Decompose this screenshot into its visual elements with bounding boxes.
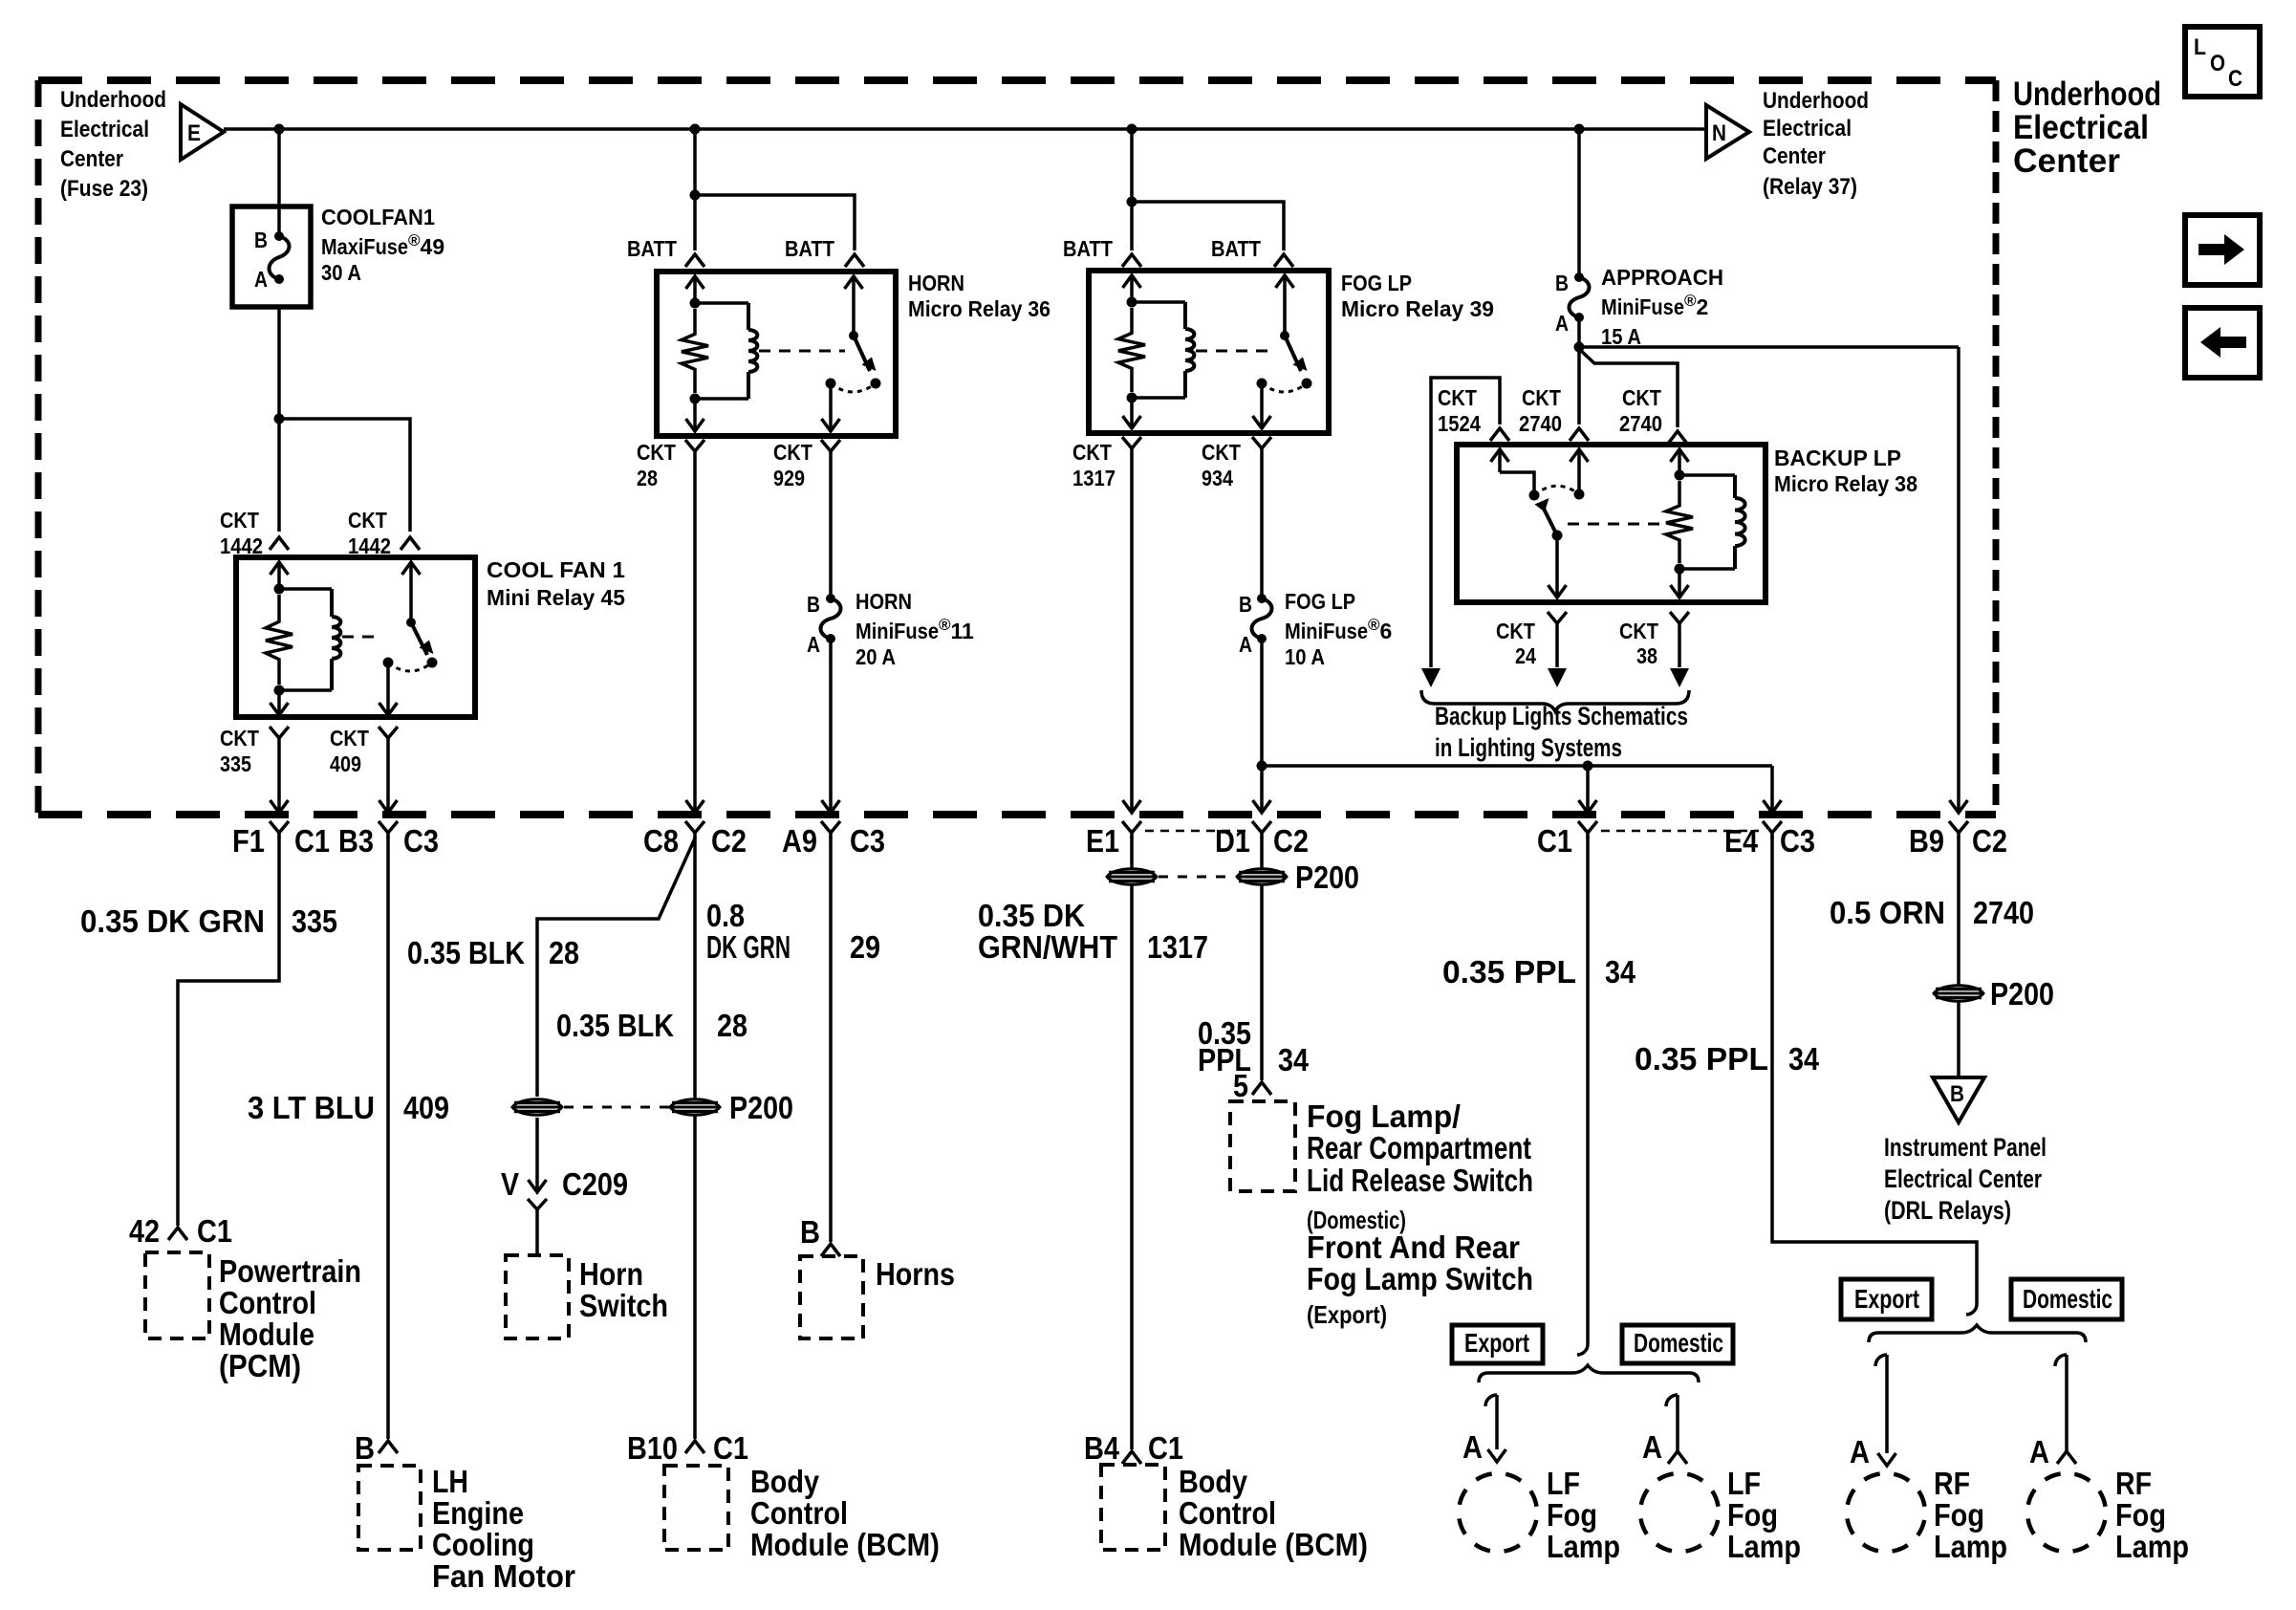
wire HORN coil output to box edge	[693, 399, 697, 431]
brace RF fog lamp split	[1869, 1325, 2086, 1342]
svg-text:30 A: 30 A	[321, 260, 361, 285]
svg-text:A: A	[254, 267, 268, 292]
svg-text:A: A	[1239, 632, 1252, 657]
svg-text:C8: C8	[643, 823, 679, 859]
svg-text:RF: RF	[1934, 1466, 1970, 1501]
svg-text:Lamp: Lamp	[1934, 1529, 2007, 1564]
svg-text:Mini Relay 45: Mini Relay 45	[487, 585, 625, 610]
wire dashed grommet tie P200	[564, 1106, 669, 1109]
svg-text:2740: 2740	[1973, 895, 2034, 930]
wire HORN fuse to border (CKT 29)	[829, 639, 833, 813]
connector BATT FOG switch	[1274, 254, 1293, 267]
wire CKT 335 to border	[277, 744, 281, 813]
svg-text:0.35 DK GRN: 0.35 DK GRN	[80, 903, 265, 939]
node bus junction at FOG LP branch	[1127, 124, 1137, 135]
svg-text:B: B	[807, 592, 820, 617]
svg-text:DK GRN: DK GRN	[706, 929, 791, 965]
wire main battery bus from E to N	[224, 127, 1706, 131]
connector FOG output CKT 934	[1252, 437, 1271, 448]
component Horns box	[800, 1256, 863, 1338]
wire dashed actuator link COOL FAN relay	[342, 636, 380, 639]
node HORN branch junction	[690, 190, 701, 201]
svg-text:D1: D1	[1215, 823, 1250, 859]
svg-text:Switch: Switch	[579, 1288, 668, 1323]
svg-text:O: O	[2210, 51, 2225, 76]
wire dashed actuator link HORN relay	[759, 350, 845, 353]
svg-text:Backup Lights Schematics: Backup Lights Schematics	[1435, 702, 1688, 730]
node HORN coil top junction	[690, 298, 701, 309]
connector triangle N (to Relay 37)	[1706, 105, 1749, 159]
switch FOG relay	[1276, 275, 1294, 288]
fuse HORN MiniFuse 11 20A	[826, 594, 835, 603]
wire APPROACH fuse to junction	[1577, 317, 1581, 347]
wire BACKUP coil output (CKT 38)	[1678, 569, 1681, 598]
svg-text:RF: RF	[2115, 1466, 2152, 1501]
wire CKT 1524 arrow to backup lights schematic	[1421, 668, 1440, 687]
wire 0.5 ORN 2740 to instrument panel	[1957, 837, 1960, 1077]
wire bus to HORN relay	[693, 129, 697, 195]
svg-text:L: L	[2194, 34, 2206, 60]
connector BATT HORN switch	[845, 254, 864, 267]
wire fog feed to E4 column	[1262, 764, 1772, 768]
relay COOL FAN 1 Mini Relay 45 box	[236, 557, 475, 717]
svg-text:38: 38	[1636, 643, 1657, 668]
connector COOL FAN output CKT 409	[379, 727, 398, 738]
legend right-arrow box	[2185, 215, 2260, 285]
svg-text:MaxiFuse®49: MaxiFuse®49	[321, 231, 444, 259]
svg-text:29: 29	[850, 929, 880, 965]
connector BATT HORN coil	[685, 254, 704, 267]
wire 0.8 DK GRN 29 to horns	[829, 837, 833, 1242]
wire jog to BACKUP relay right terminal (CKT 2740)	[1579, 349, 1678, 427]
svg-text:P200: P200	[1295, 859, 1359, 895]
switch feed terminal BACKUP relay	[1491, 449, 1509, 462]
svg-text:CKT: CKT	[1622, 385, 1661, 410]
svg-text:(Export): (Export)	[1307, 1300, 1387, 1329]
label Export box (RF)	[1841, 1279, 1932, 1319]
wire branch 0.35 BLK 28 to horn switch	[537, 838, 695, 1097]
svg-text:Horn: Horn	[579, 1256, 643, 1292]
component Horn Switch box	[506, 1255, 569, 1338]
svg-text:HORN: HORN	[908, 271, 964, 295]
svg-text:C3: C3	[1780, 823, 1815, 859]
lamp RF Fog Lamp (export)	[1847, 1473, 1925, 1552]
svg-text:34: 34	[1605, 954, 1636, 990]
svg-text:Front And Rear: Front And Rear	[1307, 1229, 1520, 1265]
svg-text:Fog: Fog	[2115, 1497, 2166, 1533]
wire junction to B9 column	[1579, 345, 1959, 349]
connector B3-C3 at border	[379, 821, 398, 833]
svg-text:Lamp: Lamp	[1727, 1529, 1801, 1564]
label Export box (LF)	[1452, 1325, 1543, 1363]
relay BACKUP LP Micro Relay 38 box	[1457, 445, 1765, 602]
svg-text:409: 409	[403, 1090, 449, 1125]
svg-text:Fog: Fog	[1727, 1497, 1778, 1533]
svg-text:0.35 DK: 0.35 DK	[978, 898, 1085, 933]
connector HORN output CKT 28	[685, 440, 704, 451]
svg-text:335: 335	[220, 751, 251, 776]
svg-text:C1: C1	[1148, 1430, 1183, 1466]
svg-text:335: 335	[292, 903, 337, 939]
svg-text:B: B	[1555, 271, 1569, 295]
svg-text:Body: Body	[1179, 1464, 1248, 1499]
connector BCM pin B10	[685, 1441, 704, 1453]
wire FOG coil output to box edge	[1130, 398, 1134, 428]
svg-text:Micro Relay 39: Micro Relay 39	[1341, 296, 1494, 321]
svg-text:A: A	[1642, 1429, 1662, 1465]
svg-text:Micro Relay 38: Micro Relay 38	[1774, 471, 1917, 496]
svg-text:A: A	[1850, 1434, 1870, 1469]
wire FOG fuse to border (CKT 34)	[1260, 639, 1264, 813]
legend left-arrow box	[2185, 308, 2260, 378]
svg-text:CKT: CKT	[1522, 385, 1561, 410]
coil HORN relay winding	[695, 301, 748, 305]
svg-text:BATT: BATT	[627, 236, 677, 261]
relay FOG LP Micro Relay 39 box	[1089, 271, 1329, 433]
svg-text:CKT: CKT	[1072, 440, 1112, 465]
svg-text:Center: Center	[2013, 142, 2120, 180]
brace LF fog lamp split	[1479, 1365, 1699, 1382]
wire bus to COOLFAN1 fuse	[277, 129, 281, 236]
node junction below COOLFAN1	[274, 414, 285, 424]
node junction below APPROACH fuse	[1574, 342, 1585, 353]
fuse COOLFAN1 MaxiFuse 49 30A	[232, 207, 311, 307]
connector E4-C3 at border	[1763, 821, 1782, 833]
coil terminal arrow COOL FAN relay	[271, 562, 289, 575]
svg-text:Engine: Engine	[432, 1495, 524, 1531]
coil FOG relay winding	[1132, 300, 1185, 304]
wire dashed grommet tie P200 upper	[1159, 876, 1235, 879]
wire CKT 409 to border	[386, 744, 390, 813]
svg-text:B4: B4	[1084, 1430, 1120, 1466]
svg-text:HORN: HORN	[856, 589, 912, 614]
svg-text:42: 42	[129, 1213, 160, 1249]
svg-text:Domestic: Domestic	[2023, 1284, 2112, 1314]
svg-text:20 A: 20 A	[856, 644, 896, 669]
svg-text:Rear Compartment: Rear Compartment	[1307, 1130, 1531, 1165]
svg-text:BATT: BATT	[1063, 236, 1113, 261]
svg-text:P200: P200	[729, 1090, 793, 1125]
svg-text:Underhood: Underhood	[1763, 88, 1869, 114]
svg-text:C1: C1	[197, 1213, 232, 1249]
svg-text:N: N	[1712, 120, 1726, 146]
node bus junction at HORN branch	[690, 124, 701, 135]
svg-text:Module: Module	[219, 1316, 314, 1352]
svg-text:B: B	[1239, 592, 1252, 617]
connector triangle B to instrument panel	[1933, 1077, 1984, 1122]
svg-text:Center: Center	[60, 146, 123, 172]
wire CKT 38 to backup lights schematic	[1678, 629, 1681, 667]
svg-text:34: 34	[1278, 1042, 1310, 1077]
svg-text:28: 28	[717, 1008, 747, 1043]
svg-text:C1: C1	[1537, 823, 1572, 859]
wire BACKUP switch output (CKT 24)	[1555, 535, 1559, 598]
svg-text:Underhood: Underhood	[60, 87, 166, 113]
svg-text:CKT: CKT	[1202, 440, 1241, 465]
svg-text:FOG LP: FOG LP	[1341, 271, 1412, 295]
connector BACKUP relay right terminal	[1668, 431, 1687, 444]
svg-text:Module (BCM): Module (BCM)	[1179, 1527, 1368, 1562]
svg-text:Fog: Fog	[1547, 1497, 1597, 1533]
wire COOLFAN1 to COOL FAN relay coil (CKT 1442)	[277, 307, 281, 419]
svg-text:1317: 1317	[1072, 466, 1116, 490]
wire CKT 24 to backup lights schematic	[1555, 629, 1559, 667]
coil terminal arrow BACKUP relay	[1671, 449, 1689, 462]
wire dashed connector tie E1-D1	[1145, 830, 1250, 833]
svg-text:Fog Lamp/: Fog Lamp/	[1307, 1099, 1461, 1134]
legend LOC box	[2185, 27, 2260, 97]
svg-text:929: 929	[773, 466, 805, 490]
connector V C209 inline	[535, 1118, 539, 1192]
node FOG branch junction	[1127, 197, 1137, 207]
connector HORN output CKT 929	[821, 440, 840, 451]
svg-text:Body: Body	[750, 1464, 820, 1499]
connector fog lamp switch pin 5	[1252, 1082, 1271, 1095]
svg-text:GRN/WHT: GRN/WHT	[978, 929, 1117, 965]
wire CKT 934 to FOG fuse	[1260, 454, 1264, 598]
svg-text:28: 28	[549, 935, 579, 970]
svg-text:Module (BCM): Module (BCM)	[750, 1527, 940, 1562]
svg-text:C1: C1	[294, 823, 330, 859]
wire 0.35 PPL 34 to LF fog lamps	[1586, 837, 1590, 1344]
connector triangle E (feed from Fuse 23)	[181, 104, 224, 160]
svg-text:A: A	[2029, 1434, 2049, 1469]
wire branch to FOG LP relay switch BATT	[1132, 202, 1284, 250]
component Body Control Module (BCM) box left	[664, 1466, 728, 1550]
wire 0.35 BLK 28 to BCM (B10)	[693, 837, 697, 1439]
svg-text:CKT: CKT	[1438, 385, 1477, 410]
resistor FOG relay coil suppression	[1118, 308, 1145, 392]
lamp LF Fog Lamp (domestic)	[1640, 1473, 1719, 1552]
coil terminal arrow HORN relay	[686, 276, 704, 289]
wire branch to HORN relay switch BATT	[695, 195, 855, 250]
svg-text:15 A: 15 A	[1601, 324, 1641, 349]
connector E1 at border	[1122, 821, 1141, 833]
Underhood Electrical Center dashed boundary box	[38, 76, 1996, 84]
svg-text:Control: Control	[1179, 1495, 1276, 1531]
svg-text:Electrical: Electrical	[60, 117, 149, 142]
connector horns pin B	[821, 1244, 840, 1256]
connector CKT 1442 left	[270, 537, 289, 550]
svg-text:COOLFAN1: COOLFAN1	[321, 205, 435, 229]
svg-text:Export: Export	[1464, 1328, 1529, 1358]
wire E4 column to border	[1770, 766, 1774, 813]
connector A9-C3 at border	[821, 821, 840, 833]
svg-text:Domestic: Domestic	[1634, 1328, 1723, 1358]
node BACKUP coil bottom junction	[1675, 564, 1685, 575]
svg-text:Horns: Horns	[876, 1256, 955, 1292]
svg-text:34: 34	[1788, 1041, 1820, 1077]
node junction fog lamp feed split	[1257, 761, 1267, 772]
svg-text:Electrical Center: Electrical Center	[1884, 1164, 2042, 1193]
connector PCM pin 42	[168, 1228, 187, 1240]
coil BACKUP relay winding	[1679, 473, 1735, 477]
wire bus to FOG LP relay	[1130, 129, 1134, 202]
svg-text:LF: LF	[1727, 1466, 1761, 1501]
coil terminal arrow FOG relay	[1123, 275, 1141, 288]
svg-text:C2: C2	[1273, 823, 1309, 859]
wire end hook LF feed	[1577, 1344, 1588, 1355]
svg-text:LF: LF	[1547, 1466, 1580, 1501]
svg-text:APPROACH: APPROACH	[1601, 265, 1723, 290]
svg-text:MiniFuse®11: MiniFuse®11	[856, 616, 974, 643]
svg-text:C209: C209	[562, 1166, 628, 1202]
lamp RF Fog Lamp (domestic)	[2027, 1473, 2106, 1552]
node bus junction at APPROACH branch	[1574, 124, 1585, 135]
wire CKT 28 to border	[693, 457, 697, 813]
node HORN coil bottom junction	[690, 394, 701, 404]
wire C1 column to border	[1586, 766, 1590, 813]
connector BACKUP relay center terminal	[1570, 428, 1589, 441]
svg-text:0.35 PPL: 0.35 PPL	[1635, 1041, 1768, 1077]
svg-text:A: A	[1462, 1429, 1483, 1465]
svg-text:E4: E4	[1724, 823, 1759, 859]
svg-text:(PCM): (PCM)	[219, 1348, 301, 1383]
svg-text:5: 5	[1233, 1068, 1248, 1103]
svg-text:C1: C1	[713, 1430, 748, 1466]
svg-text:FOG LP: FOG LP	[1285, 589, 1355, 614]
splice grommet P200 D1 wire	[1237, 869, 1287, 885]
connector C8-C2 at border	[685, 821, 704, 833]
svg-text:E: E	[187, 120, 201, 146]
svg-text:CKT: CKT	[348, 508, 387, 533]
svg-text:Fog Lamp Switch: Fog Lamp Switch	[1307, 1261, 1533, 1296]
svg-text:F1: F1	[232, 823, 265, 859]
svg-text:BATT: BATT	[785, 236, 834, 261]
wire CKT 1524 bracket	[1431, 378, 1500, 667]
svg-text:28: 28	[637, 466, 658, 490]
connector CKT 1442 right	[401, 537, 420, 550]
connector BATT FOG coil	[1122, 254, 1141, 267]
connector D1-C2 at border	[1252, 821, 1271, 833]
connector F1-C1 at border	[270, 821, 289, 833]
wire bus to APPROACH fuse	[1577, 129, 1581, 277]
svg-text:V: V	[501, 1166, 519, 1202]
resistor HORN relay coil suppression	[682, 309, 708, 393]
connector fan motor pin B	[379, 1441, 398, 1453]
svg-text:A9: A9	[782, 823, 817, 859]
node coil bottom junction	[274, 685, 285, 696]
svg-text:B3: B3	[338, 823, 374, 859]
wire CKT 1317 to border	[1130, 454, 1134, 813]
svg-text:Powertrain: Powertrain	[219, 1253, 361, 1289]
svg-text:1317: 1317	[1147, 929, 1208, 965]
svg-text:Fog: Fog	[1934, 1497, 1984, 1533]
relay HORN Micro Relay 36 box	[657, 272, 896, 436]
wire RF export branch	[1875, 1355, 1887, 1366]
wire branch to COOL FAN relay switch (CKT 1442)	[279, 419, 410, 532]
svg-text:B: B	[355, 1430, 375, 1466]
svg-text:C2: C2	[711, 823, 747, 859]
brace backup lights schematics group	[1421, 690, 1689, 711]
connector BACKUP relay left terminal	[1490, 428, 1509, 441]
node junction at C1 column	[1583, 761, 1593, 772]
svg-text:Center: Center	[1763, 143, 1826, 169]
svg-text:BATT: BATT	[1211, 236, 1261, 261]
svg-text:CKT: CKT	[1619, 619, 1658, 643]
wire LF domestic branch	[1666, 1395, 1678, 1406]
node FOG coil bottom junction	[1127, 393, 1137, 403]
svg-text:Electrical: Electrical	[1763, 116, 1852, 141]
svg-text:CKT: CKT	[220, 508, 259, 533]
wire RF domestic branch	[2055, 1355, 2067, 1366]
wire B9 column down to border	[1957, 347, 1960, 813]
svg-text:C: C	[2228, 66, 2242, 92]
svg-text:0.8: 0.8	[706, 898, 745, 933]
wire 0.35 PPL 34 to RF fog lamps	[1772, 837, 1977, 1304]
svg-text:2740: 2740	[1519, 411, 1562, 436]
svg-text:Underhood: Underhood	[2013, 76, 2161, 113]
svg-text:0.35 BLK: 0.35 BLK	[556, 1008, 674, 1043]
svg-text:Electrical: Electrical	[2013, 109, 2149, 146]
wire end hook RF feed	[1966, 1304, 1977, 1315]
connector C1 at border (fog lamps)	[1578, 821, 1597, 833]
node coil top junction	[274, 584, 285, 595]
svg-text:Micro Relay 36: Micro Relay 36	[908, 296, 1051, 321]
svg-text:C3: C3	[403, 823, 439, 859]
svg-text:A: A	[1555, 311, 1569, 336]
component Fog Lamp / Rear Compartment Lid Release Switch box	[1230, 1101, 1295, 1191]
splice grommet P200 E1 wire	[1107, 869, 1157, 885]
switch COOL FAN relay	[402, 562, 421, 575]
wire dashed actuator link FOG relay	[1196, 350, 1276, 353]
svg-text:Instrument Panel: Instrument Panel	[1884, 1133, 2047, 1162]
svg-text:(Fuse 23): (Fuse 23)	[60, 176, 148, 202]
svg-text:Lamp: Lamp	[1547, 1529, 1620, 1564]
svg-text:B: B	[800, 1214, 820, 1250]
fuse APPROACH MiniFuse 2 15A	[1574, 272, 1584, 282]
switch common terminal BACKUP relay	[1570, 449, 1589, 462]
wire dashed connector tie C1-E4	[1601, 830, 1759, 833]
svg-text:Fan Motor: Fan Motor	[432, 1558, 575, 1594]
svg-text:Lamp: Lamp	[2115, 1529, 2189, 1564]
svg-text:0.5 ORN: 0.5 ORN	[1830, 895, 1945, 930]
svg-text:P200: P200	[1990, 976, 2054, 1012]
svg-text:24: 24	[1515, 643, 1536, 668]
svg-text:Export: Export	[1854, 1284, 1919, 1314]
svg-text:B9: B9	[1909, 823, 1944, 859]
svg-text:Lid Release Switch: Lid Release Switch	[1307, 1163, 1533, 1198]
svg-text:CKT: CKT	[330, 726, 369, 751]
svg-text:0.35 PPL: 0.35 PPL	[1442, 954, 1576, 990]
splice grommet P200 ORN wire	[1934, 986, 1983, 1002]
splice grommet P200 BCM wire	[670, 1099, 720, 1116]
svg-text:CKT: CKT	[637, 440, 676, 465]
wire 0.35 PPL 34 to fog lamp switch	[1260, 837, 1264, 1080]
switch HORN relay	[845, 276, 863, 289]
svg-text:(Relay 37): (Relay 37)	[1763, 174, 1857, 200]
connector COOL FAN output CKT 335	[270, 727, 289, 738]
resistor COOL FAN relay coil suppression	[266, 595, 292, 685]
svg-text:0.35 BLK: 0.35 BLK	[407, 935, 525, 970]
svg-text:B10: B10	[627, 1430, 678, 1466]
component Powertrain Control Module (PCM) box	[145, 1252, 209, 1338]
label Domestic box (RF)	[2011, 1279, 2122, 1319]
svg-text:B: B	[1950, 1081, 1964, 1107]
resistor BACKUP relay coil suppression	[1666, 481, 1693, 563]
node FOG coil top junction	[1127, 297, 1137, 308]
splice grommet P200 horn switch wire	[512, 1099, 562, 1116]
svg-text:CKT: CKT	[220, 726, 259, 751]
wire junction to BACKUP relay center terminal (CKT 2740)	[1577, 347, 1581, 424]
connector FOG output CKT 1317	[1122, 437, 1141, 448]
coil COOL FAN relay winding	[279, 587, 332, 591]
svg-text:Control: Control	[750, 1495, 848, 1531]
connector B9-C2 at border	[1949, 821, 1968, 833]
svg-text:COOL FAN 1: COOL FAN 1	[487, 557, 625, 582]
svg-text:2740: 2740	[1619, 411, 1662, 436]
switch blade BACKUP relay	[1542, 505, 1557, 535]
